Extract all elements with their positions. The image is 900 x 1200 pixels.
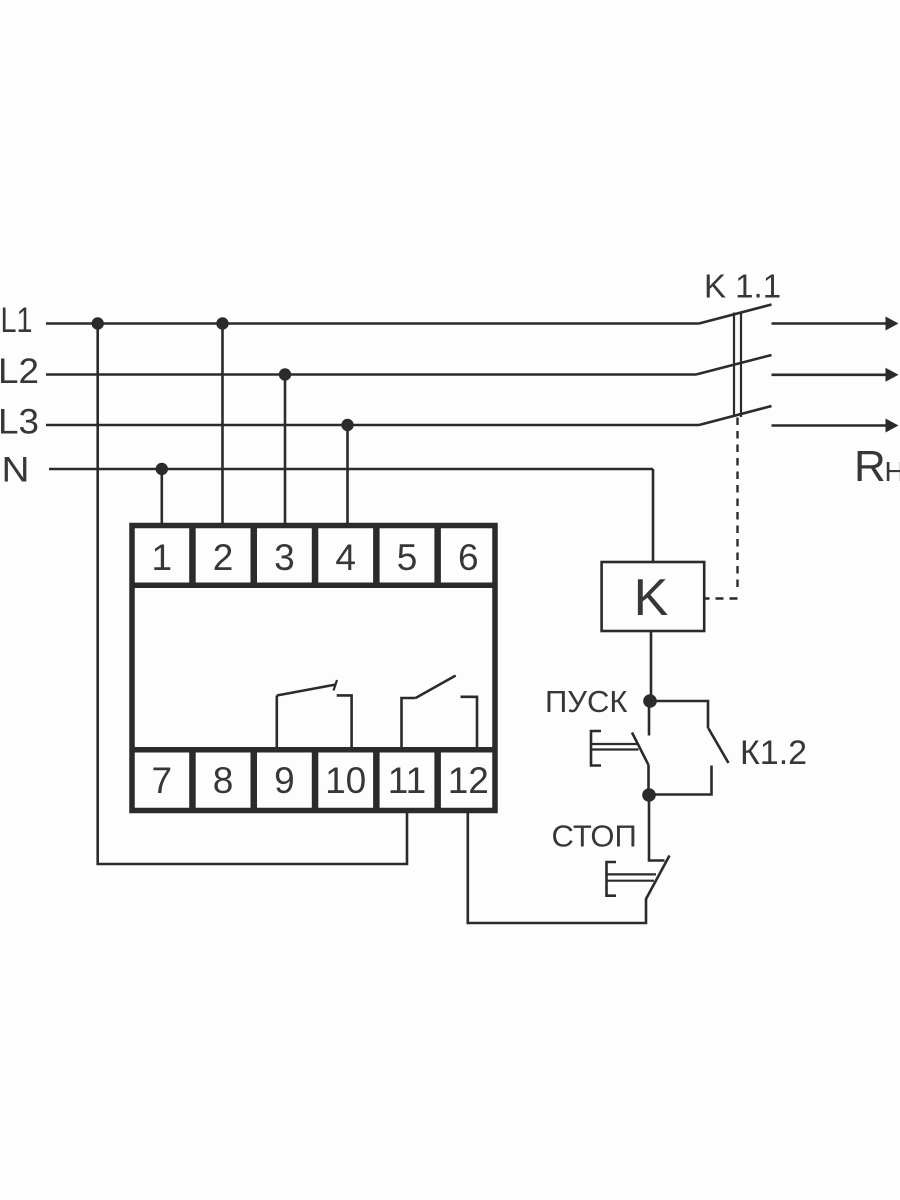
- wire stub L1 to terminal 2: [221, 324, 224, 525]
- device line above bottom terminal row: [130, 747, 497, 753]
- node PUSK bottom: [642, 788, 656, 802]
- wire L2 output: [772, 373, 888, 376]
- svg-text:K: K: [634, 569, 669, 627]
- svg-text:7: 7: [152, 760, 173, 801]
- relay contact 9-10 blade: [277, 685, 336, 696]
- STOP actuator linkage double line: [607, 874, 657, 880]
- node L3-t4: [341, 419, 353, 431]
- wire stub N to terminal 1: [161, 469, 164, 524]
- svg-text:11: 11: [388, 760, 426, 801]
- relay contact 9-10 tip tick: [334, 680, 338, 691]
- svg-text:5: 5: [397, 537, 418, 578]
- svg-text:L1: L1: [1, 301, 33, 340]
- contact K1.2 bottom branch: [650, 766, 712, 795]
- svg-text:6: 6: [458, 537, 479, 578]
- terminal numbers bottom row: [152, 760, 489, 801]
- contact K1.2 blade: [709, 729, 729, 764]
- node PUSK top: [643, 694, 657, 708]
- arrowhead L1 output: [886, 317, 899, 331]
- wire L2 horizontal: [46, 373, 696, 376]
- PUSK actuator linkage double line: [591, 744, 639, 750]
- top terminal dividers: [192, 526, 437, 586]
- terminal numbers top row: [152, 537, 479, 578]
- arrowhead L3 output: [886, 419, 899, 433]
- node L2-t3: [279, 368, 291, 380]
- wire left drop from L1 to bottom: [98, 324, 407, 865]
- svg-text:ПУСК: ПУСК: [545, 684, 627, 719]
- wire L1 horizontal: [46, 322, 699, 325]
- dashed link K1.1 to coil K vertical: [736, 418, 738, 593]
- wire N horizontal: [49, 468, 653, 471]
- contact K1.1 pole L1 blade: [699, 305, 772, 324]
- wire node to PUSK button top: [648, 701, 651, 736]
- dashed link horizontal to coil K: [705, 597, 738, 599]
- wire L1 output: [772, 322, 888, 325]
- svg-text:K 1.1: K 1.1: [704, 268, 781, 305]
- relay contact 11-12 right hook: [461, 697, 478, 749]
- wire PUSK bottom to node: [647, 765, 650, 795]
- wire node to STOP button: [649, 795, 665, 861]
- svg-text:R: R: [854, 442, 886, 491]
- arrowhead L2 output: [886, 368, 899, 382]
- contact K1.1 pole L2 blade: [696, 355, 772, 375]
- node L1-t2: [216, 317, 228, 329]
- svg-text:3: 3: [274, 537, 295, 578]
- svg-text:10: 10: [325, 760, 366, 801]
- svg-text:N: N: [2, 451, 30, 490]
- svg-text:СТОП: СТОП: [552, 819, 637, 854]
- wire STOP bottom to terminal 12: [468, 813, 646, 923]
- svg-text:12: 12: [448, 760, 489, 801]
- bottom terminal dividers: [192, 750, 437, 811]
- svg-text:2: 2: [213, 537, 234, 578]
- relay contact 9-10 right hook: [337, 695, 352, 749]
- device body: [130, 526, 704, 811]
- svg-text:К1.2: К1.2: [740, 734, 807, 772]
- svg-text:8: 8: [213, 760, 234, 801]
- svg-text:9: 9: [274, 760, 295, 801]
- relay contact 11-12 left leg: [402, 698, 416, 749]
- wire stub L2 to terminal 3: [284, 375, 287, 525]
- node N-t1: [156, 463, 168, 475]
- svg-text:L3: L3: [0, 402, 39, 441]
- device outer box: [132, 526, 495, 811]
- node L1-left: [92, 317, 104, 329]
- contact K1.1 pole L3 blade: [699, 406, 772, 425]
- wire L3 horizontal: [46, 424, 699, 427]
- PUSK actuator bracket: [591, 731, 601, 766]
- wire N drop to K coil: [652, 469, 655, 562]
- contact K1.2 top branch: [650, 701, 708, 729]
- pushbutton PUSK blade: [632, 733, 649, 766]
- svg-text:Н: Н: [885, 456, 900, 487]
- svg-text:L2: L2: [0, 352, 39, 391]
- wire K coil to PUSK node: [650, 631, 653, 701]
- relay contact 11-12 blade: [416, 676, 456, 699]
- wire stub L3 to terminal 4: [346, 425, 349, 524]
- coil K box: [602, 562, 705, 631]
- svg-text:1: 1: [152, 537, 173, 578]
- wire L3 output: [772, 424, 888, 427]
- STOP actuator bracket: [607, 862, 617, 896]
- device line under top terminal row: [130, 583, 497, 589]
- K1.1 mechanical linkage double line: [734, 313, 741, 418]
- svg-text:4: 4: [335, 537, 356, 578]
- pushbutton STOP blade: [646, 856, 670, 900]
- relay contact 9-10 left leg: [275, 696, 278, 750]
